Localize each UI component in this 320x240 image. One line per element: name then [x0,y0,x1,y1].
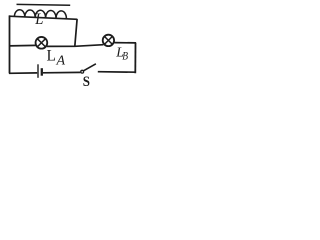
lamp LB circle [103,35,114,46]
lamp LA circle [36,37,48,49]
wire middle-right (lamp B to right edge) [114,42,136,44]
wire bottom-right (edge to switch) [98,71,136,74]
wire battery to left edge [9,72,37,74]
inductor L coil [14,10,66,19]
svg-text:L: L [34,11,43,28]
wire middle (lamp A to junction to lamp B) [47,45,104,47]
wire switch to battery [43,71,80,73]
switch S pivot circle [81,70,84,73]
svg-text:S: S [83,74,90,89]
switch S blade [84,64,96,71]
wire inner vertical (top branch to middle) [75,19,77,46]
svg-text:L: L [47,48,56,65]
svg-text:A: A [56,54,66,69]
wire left vertical edge [9,15,11,73]
battery long plate [37,64,39,78]
wire top horizontal [9,16,77,19]
inductor core line [17,3,71,6]
battery short plate [41,68,43,76]
lamp LB cross [104,36,112,44]
wire middle-left (edge to lamp A) [9,44,36,47]
lamp LA cross [37,39,45,47]
wire right vertical edge [134,43,136,74]
svg-text:B: B [122,48,128,62]
